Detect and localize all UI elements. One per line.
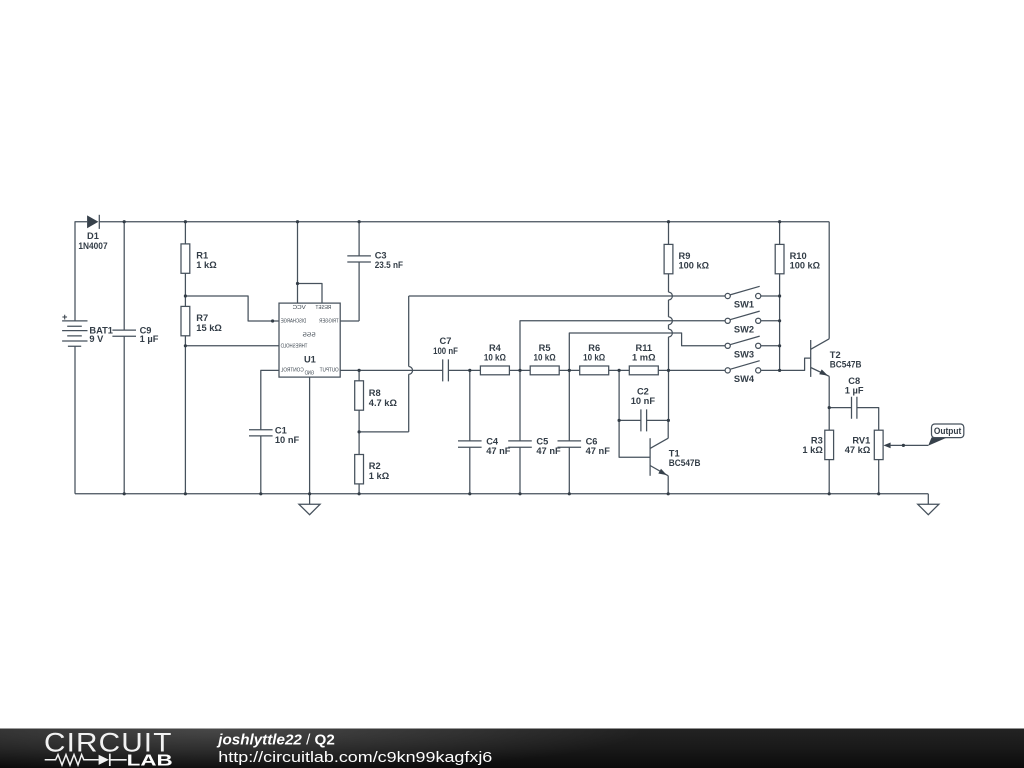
label SW3 (734, 350, 754, 360)
svg-text:CONTROL: CONTROL (280, 368, 304, 374)
pin label DISCHARGE (mirrored) (281, 319, 307, 325)
battery BAT1 (62, 312, 88, 346)
pin label GND (mirrored) (305, 371, 315, 377)
capacitor C9 with leads (112, 222, 136, 494)
wire R7 bottom to THRESHOLD pin (185, 345, 279, 347)
pin label CONTROL (mirrored) (280, 368, 304, 374)
wire R8 bottom jog to riser (359, 431, 409, 433)
svg-text:47 nF: 47 nF (586, 446, 611, 456)
label C9 1 uF (140, 326, 159, 345)
resistor R2 with leads (355, 432, 364, 494)
capacitor C6 with leads (558, 370, 582, 493)
label U1 (304, 355, 316, 365)
transistor T2 BC547B (811, 339, 830, 408)
capacitor C3 with leads (347, 222, 371, 321)
capacitor C1 with bottom lead (249, 430, 273, 494)
label C6 47 nF (586, 436, 611, 456)
wire T2 emitter node row to C8 and RV1 (829, 408, 879, 431)
wire left rail: battery + up to D1 anode (75, 222, 87, 321)
svg-text:47 nF: 47 nF (486, 446, 511, 456)
svg-text:C8: C8 (848, 376, 860, 386)
user / title line (216, 731, 334, 748)
pin label OUTPUT (mirrored) (319, 368, 338, 374)
svg-text:T1: T1 (669, 448, 680, 458)
svg-text:1 µF: 1 µF (845, 385, 864, 395)
switch SW4 (725, 361, 779, 373)
capacitor C7 plates (443, 359, 449, 381)
capacitor C2 with leads (619, 370, 668, 431)
resistor R7 (181, 306, 190, 335)
svg-text:R5: R5 (539, 343, 551, 353)
svg-text:1 mΩ: 1 mΩ (632, 353, 656, 363)
svg-text:+: + (62, 312, 68, 322)
svg-text:C5: C5 (536, 436, 548, 446)
svg-text:100 kΩ: 100 kΩ (679, 261, 710, 271)
svg-text:R8: R8 (369, 388, 381, 398)
label R11 1 mOhm (632, 343, 656, 363)
label C7 100 nF (433, 336, 458, 356)
junction dot RV1 wiper wire (902, 444, 905, 447)
svg-text:GND: GND (305, 371, 315, 377)
label R8 4.7 kOhm (369, 388, 398, 408)
junction dots bottom rail (123, 492, 881, 495)
label RV1 47 kOhm (845, 436, 871, 456)
svg-text:1 kΩ: 1 kΩ (196, 260, 217, 270)
capacitor C4 with leads (458, 370, 482, 493)
svg-text:BC547B: BC547B (669, 458, 701, 468)
label T1 BC547B (669, 448, 701, 468)
logo resistor-diode glyph (45, 754, 127, 766)
ground symbol at U1 GND (299, 494, 320, 515)
junction dots R1/R7 column (184, 294, 187, 347)
op-amp U1 555 timer IC box (mirrored) (279, 303, 340, 377)
wire SW3 riser and jog from R5/R6 tap (569, 333, 725, 370)
svg-text:RESET: RESET (315, 305, 331, 311)
junction dot DISCHARGE stub (271, 319, 274, 322)
label C4 47 nF (486, 436, 511, 456)
svg-text:R3: R3 (811, 436, 823, 446)
capacitor C8 plates (852, 397, 857, 419)
wire SW4 bus to T2 base jog (780, 358, 811, 370)
label R7 15 kOhm (196, 313, 222, 333)
Output flag box (932, 424, 964, 438)
logo text LAB (127, 752, 173, 768)
pin label RESET (mirrored) (315, 305, 331, 311)
svg-text:10 kΩ: 10 kΩ (534, 353, 557, 363)
svg-text:THRESHOLD: THRESHOLD (281, 344, 308, 350)
svg-text:SW1: SW1 (734, 300, 754, 310)
svg-text:100 nF: 100 nF (433, 346, 458, 356)
svg-text:9 V: 9 V (89, 334, 104, 344)
wire VCC pin stub of U1 (297, 222, 299, 303)
svg-text:joshlyttle22 / Q2: joshlyttle22 / Q2 (216, 731, 334, 748)
wire RESET pin jog to VCC column (298, 284, 323, 304)
label R6 10 kOhm (583, 343, 606, 363)
pin label VCC (mirrored) (293, 305, 306, 311)
diode D1 (87, 215, 99, 229)
svg-text:R7: R7 (196, 313, 208, 323)
svg-text:555: 555 (303, 333, 316, 339)
svg-text:SW2: SW2 (734, 325, 754, 335)
junction dot R8 bottom node (358, 430, 361, 433)
svg-text:23.5 nF: 23.5 nF (375, 260, 404, 270)
junction dots switch bus (778, 294, 781, 372)
wire R10/switch bus column (779, 222, 781, 371)
label SW4 (734, 374, 755, 384)
label BAT1 9 V (89, 326, 113, 345)
wire top rail (net VCC) (99, 221, 829, 223)
svg-text:Output: Output (934, 426, 962, 436)
svg-text:SW4: SW4 (734, 374, 755, 384)
svg-text:D1: D1 (87, 231, 99, 241)
svg-text:4.7 kΩ: 4.7 kΩ (369, 398, 398, 408)
switch SW3 (725, 336, 779, 348)
svg-text:C6: C6 (586, 436, 598, 446)
wire left rail: battery - down to ground rail (74, 346, 76, 494)
svg-text:R10: R10 (790, 251, 807, 261)
wire T2 collector from top rail (828, 222, 830, 339)
label SW2 (734, 325, 754, 335)
svg-text:R9: R9 (679, 251, 691, 261)
svg-text:T2: T2 (830, 350, 841, 360)
ground symbol bottom right (918, 494, 939, 515)
transistor T1 BC547B (650, 420, 668, 493)
resistor R6 (580, 366, 609, 375)
resistor R3 with leads (825, 408, 834, 494)
svg-text:10 nF: 10 nF (275, 435, 300, 445)
label R5 10 kOhm (534, 343, 557, 363)
label 555 (mirrored) (303, 333, 316, 339)
svg-text:R6: R6 (588, 343, 600, 353)
label D1 1N4007 (78, 231, 107, 251)
wire SW2 riser from R4/R5 tap (520, 321, 725, 371)
label R1 1 kOhm (196, 251, 217, 271)
switch SW1 (725, 286, 779, 298)
svg-text:TRIGGER: TRIGGER (319, 319, 338, 325)
capacitor C5 with leads (508, 370, 532, 493)
label R9 100 kOhm (679, 251, 710, 271)
wire R1-R7 column (184, 222, 186, 494)
svg-text:47 nF: 47 nF (536, 446, 561, 456)
svg-text:http://circuitlab.com/c9kn99ka: http://circuitlab.com/c9kn99kagfxj6 (218, 749, 492, 766)
svg-text:1N4007: 1N4007 (78, 241, 107, 251)
switch SW2 (725, 311, 779, 323)
svg-text:SW3: SW3 (734, 350, 754, 360)
junction dots C2 row (618, 419, 671, 422)
RV1 wiper arrow (883, 443, 928, 449)
label R4 10 kOhm (484, 343, 507, 363)
pin label THRESHOLD (mirrored) (281, 344, 308, 350)
wire GND pin of U1 down to ground rail (309, 377, 311, 494)
svg-text:OUTPUT: OUTPUT (319, 368, 338, 374)
svg-text:C3: C3 (375, 251, 387, 261)
logo text CIRCUIT (44, 727, 173, 757)
label C8 1 uF (845, 376, 864, 396)
svg-text:R2: R2 (369, 461, 381, 471)
svg-text:47 kΩ: 47 kΩ (845, 445, 871, 455)
resistor R8 with leads (355, 370, 364, 432)
svg-text:10 nF: 10 nF (631, 396, 656, 406)
svg-text:C1: C1 (275, 425, 287, 435)
svg-text:VCC: VCC (293, 305, 306, 311)
wire CONTROL pin to C1 (261, 370, 279, 429)
svg-text:C2: C2 (637, 386, 649, 396)
pin label TRIGGER (mirrored) (319, 319, 338, 325)
svg-text:BC547B: BC547B (830, 360, 862, 370)
label C1 10 nF (275, 425, 300, 445)
label R10 100 kOhm (790, 251, 821, 271)
label R2 1 kOhm (369, 461, 390, 481)
svg-text:1 kΩ: 1 kΩ (802, 445, 823, 455)
svg-text:1 µF: 1 µF (140, 334, 159, 344)
svg-text:100 kΩ: 100 kΩ (790, 261, 821, 271)
svg-text:R11: R11 (636, 343, 653, 353)
resistor R4 (480, 366, 509, 375)
wire output row (U1 OUTPUT to SW4) (340, 369, 725, 371)
label R3 1 kOhm (802, 436, 823, 456)
label C5 47 nF (536, 436, 561, 456)
resistor R9 (664, 244, 673, 273)
svg-text:R4: R4 (489, 343, 502, 353)
resistor R1 (181, 244, 190, 273)
bottom brand bar background (0, 729, 1024, 768)
svg-text:10 kΩ: 10 kΩ (484, 353, 507, 363)
url line (218, 749, 492, 766)
resistor R10 (775, 244, 784, 273)
svg-text:R1: R1 (196, 251, 208, 261)
svg-text:U1: U1 (304, 355, 316, 365)
label C3 23.5 nF (375, 251, 404, 271)
svg-text:15 kΩ: 15 kΩ (196, 323, 222, 333)
junction dot T2 emitter node (828, 406, 831, 409)
svg-text:10 kΩ: 10 kΩ (583, 353, 606, 363)
svg-text:1 kΩ: 1 kΩ (369, 471, 390, 481)
label SW1 (734, 300, 754, 310)
junction dots output row (358, 369, 671, 372)
wire C2 left down to T1 base (619, 420, 650, 457)
wire R1/R7 junction to DISCHARGE pin (185, 296, 279, 321)
label T2 BC547B (830, 350, 862, 370)
Output flag tail (928, 437, 947, 445)
svg-text:C4: C4 (486, 436, 499, 446)
wire riser R8 node up to SW1 row (hop over output row) (409, 296, 725, 432)
junction dot RESET/VCC jog (296, 282, 299, 285)
label C2 10 nF (631, 386, 656, 406)
potentiometer RV1 with bottom lead (874, 430, 883, 494)
wire R9 column with hops (down to C2/T1) (669, 222, 673, 421)
svg-text:LAB: LAB (127, 752, 173, 768)
wire TRIGGER pin to C3 column (340, 320, 359, 322)
svg-text:RV1: RV1 (852, 436, 870, 446)
svg-text:DISCHARGE: DISCHARGE (281, 319, 307, 325)
resistor R5 (530, 366, 559, 375)
svg-text:C7: C7 (440, 336, 452, 346)
junction dots top rail (123, 220, 782, 223)
resistor R11 (629, 366, 658, 375)
wire bottom ground rail (75, 493, 928, 495)
